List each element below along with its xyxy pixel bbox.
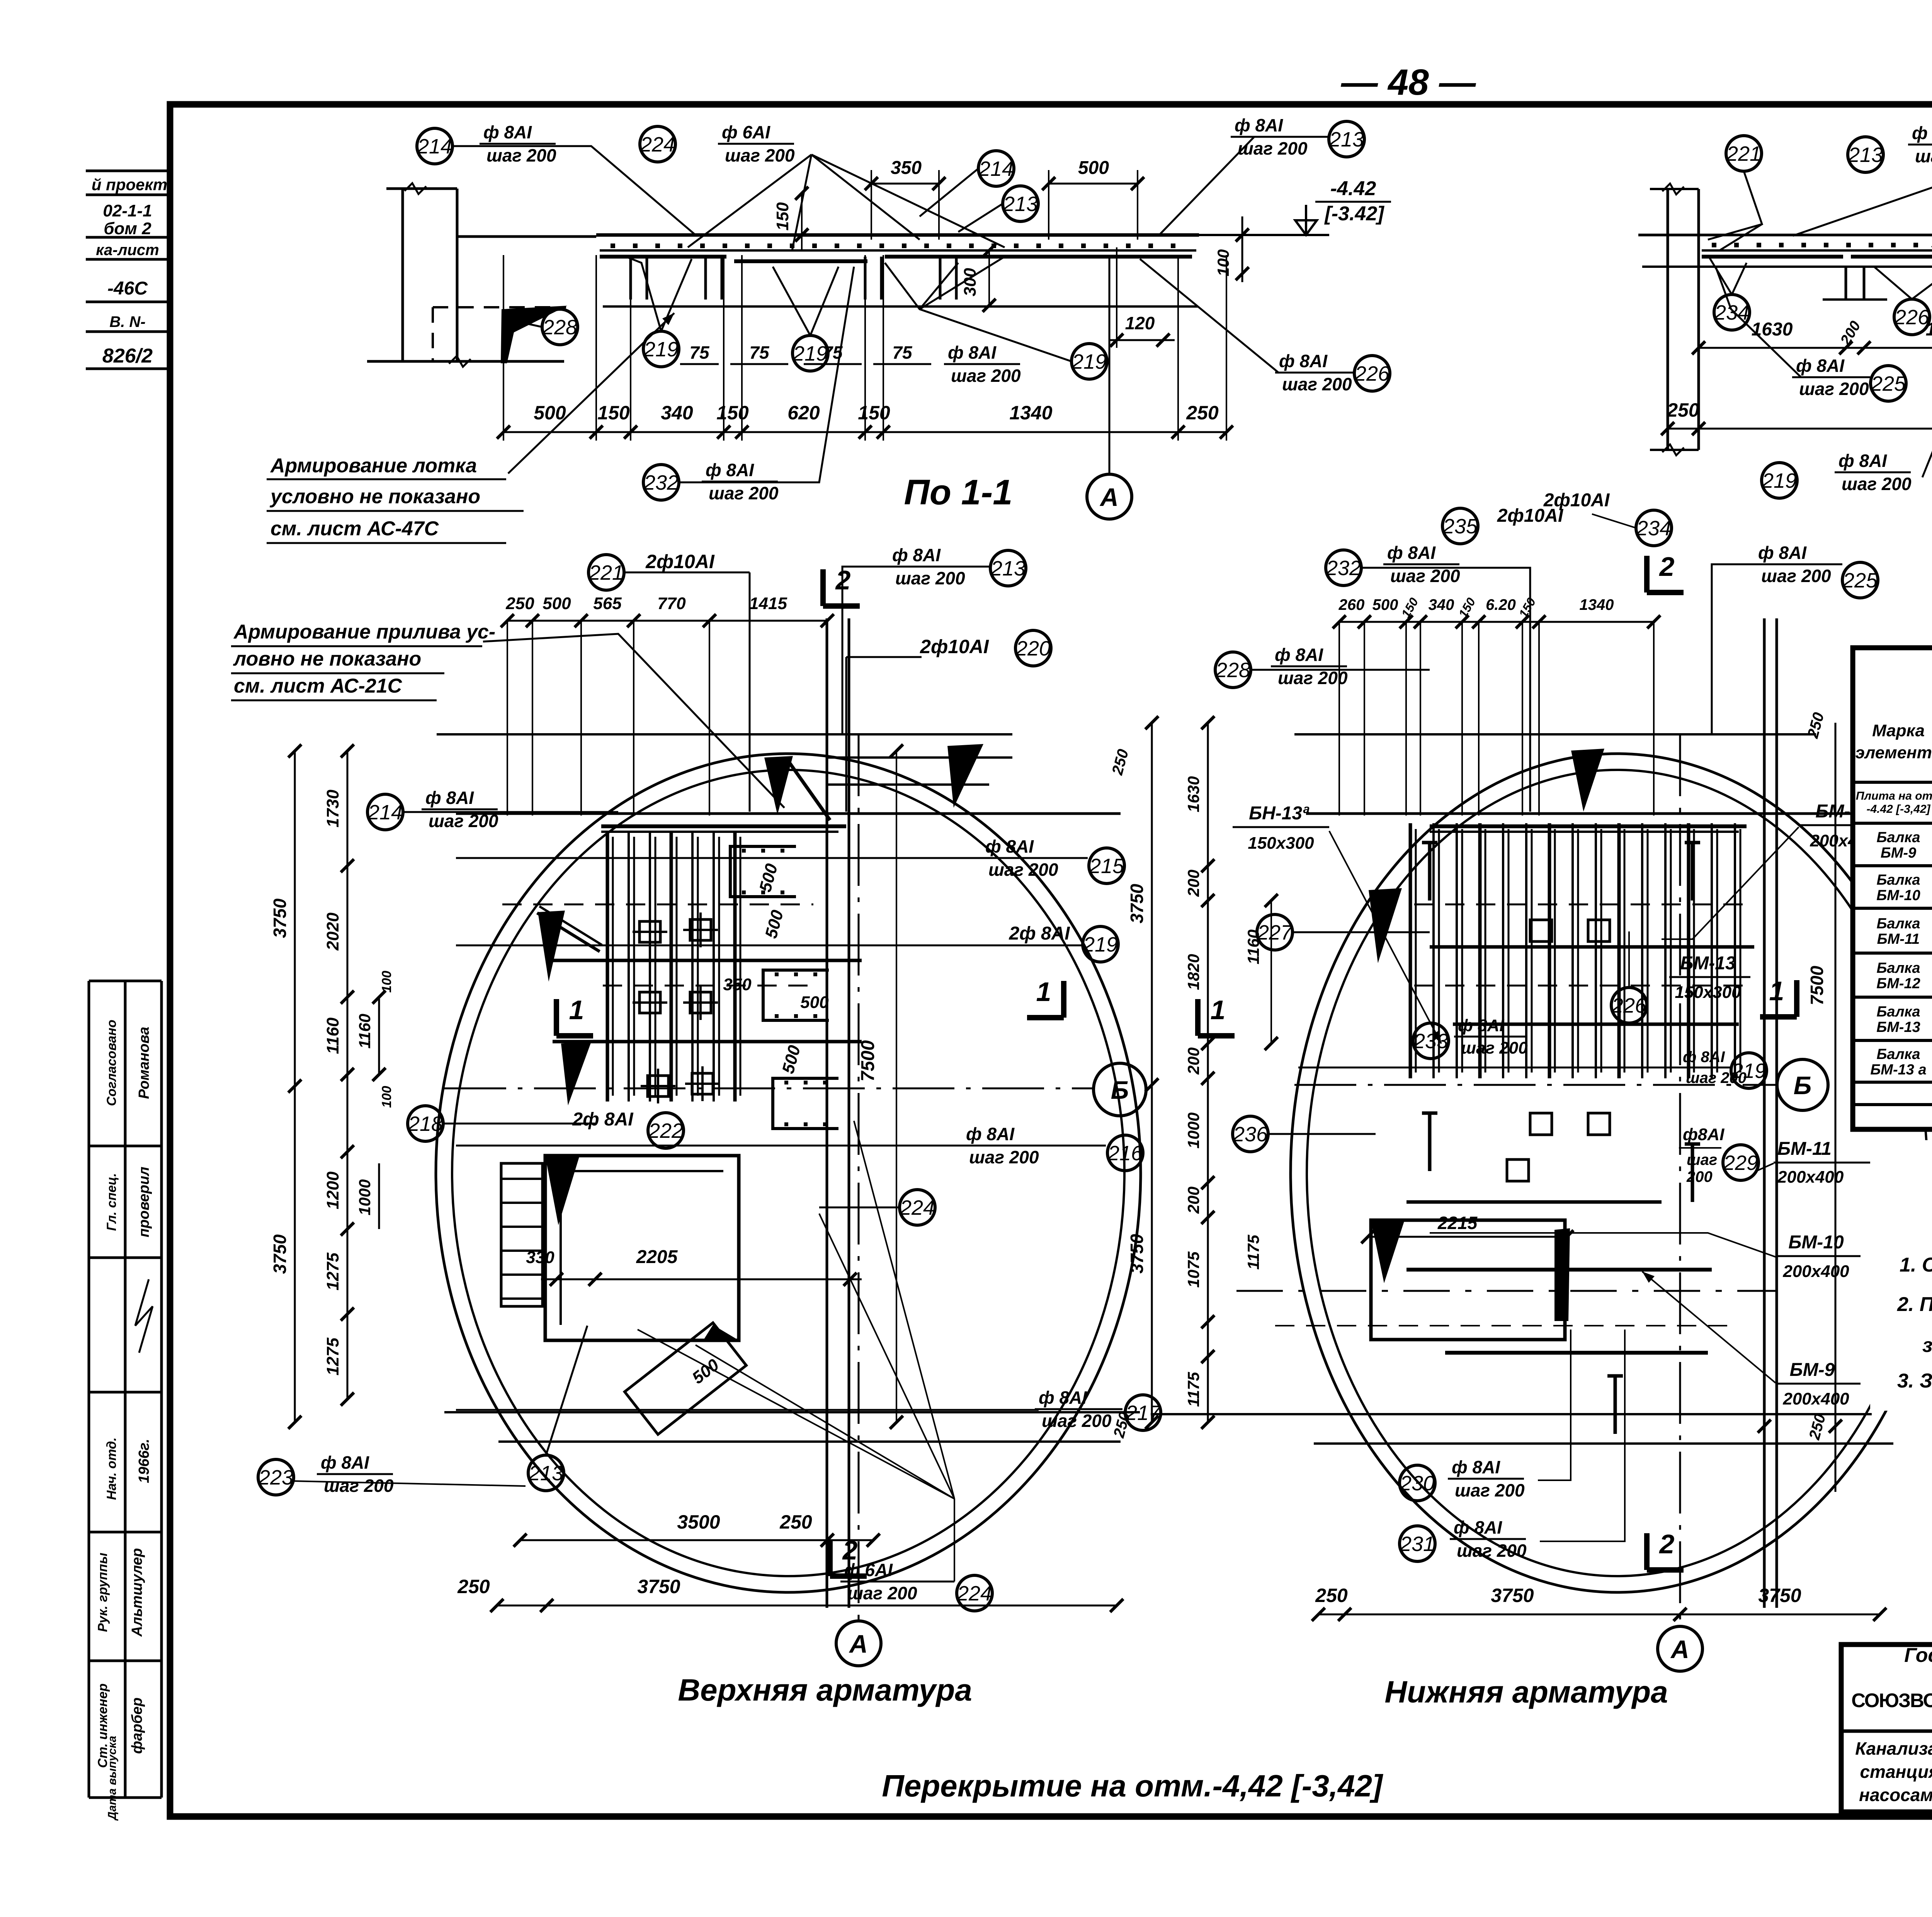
svg-text:1820: 1820 bbox=[1184, 954, 1202, 990]
beam stubs Po 2-2 bbox=[1845, 267, 1847, 300]
svg-text:ф 8АI: ф 8АI bbox=[948, 342, 997, 363]
svg-text:Дата выпуска: Дата выпуска bbox=[106, 1736, 119, 1821]
svg-text:шаг 200: шаг 200 bbox=[725, 145, 795, 165]
section Po 1-1 left wall bbox=[401, 189, 404, 361]
callout circle 219 bbox=[1083, 926, 1118, 962]
svg-text:— 48 —: — 48 — bbox=[1341, 62, 1476, 103]
dimension chain bbox=[507, 620, 827, 622]
svg-text:3750: 3750 bbox=[270, 898, 290, 938]
svg-text:-4.42 [-3,42]: -4.42 [-3,42] bbox=[1866, 803, 1930, 815]
haunch fill bbox=[501, 306, 567, 363]
section mark 1 bbox=[1195, 999, 1201, 1036]
svg-text:Балка: Балка bbox=[1877, 1046, 1920, 1062]
svg-text:1075: 1075 bbox=[1184, 1251, 1202, 1288]
stirrups right plan bbox=[1530, 920, 1552, 941]
svg-text:Армирование лотка: Армирование лотка bbox=[270, 455, 477, 477]
svg-text:А: А bbox=[1670, 1635, 1689, 1663]
svg-text:шаг 200: шаг 200 bbox=[1799, 379, 1869, 399]
svg-text:223: 223 bbox=[258, 1466, 293, 1489]
svg-text:ф 6АI: ф 6АI bbox=[722, 122, 770, 142]
svg-text:1175: 1175 bbox=[1184, 1372, 1202, 1407]
svg-text:1730: 1730 bbox=[323, 790, 342, 827]
callout circle 236 bbox=[1233, 1116, 1268, 1152]
svg-text:ф8АI: ф8АI bbox=[1683, 1125, 1725, 1144]
svg-text:ф 8АI: ф 8АI bbox=[1279, 351, 1328, 371]
svg-text:214: 214 bbox=[417, 135, 452, 158]
svg-text:шаг 200: шаг 200 bbox=[709, 483, 779, 503]
svg-text:БМ-13 а: БМ-13 а bbox=[1870, 1062, 1926, 1078]
svg-text:1000: 1000 bbox=[355, 1179, 374, 1215]
sub-slab level line bbox=[1642, 266, 1932, 268]
svg-text:219: 219 bbox=[643, 338, 679, 361]
svg-text:Согласовано: Согласовано bbox=[104, 1020, 119, 1106]
dashed axis rows lower bbox=[1236, 1290, 1777, 1292]
svg-text:231: 231 bbox=[1400, 1532, 1435, 1556]
section mark 1 bbox=[554, 999, 559, 1036]
svg-text:БМ-11: БМ-11 bbox=[1777, 1139, 1832, 1159]
svg-text:565: 565 bbox=[593, 594, 622, 613]
svg-text:219: 219 bbox=[793, 342, 828, 365]
svg-text:1630: 1630 bbox=[1184, 776, 1202, 812]
svg-text:Романова: Романова bbox=[136, 1027, 152, 1099]
svg-text:232: 232 bbox=[1326, 557, 1361, 580]
svg-text:225: 225 bbox=[1871, 372, 1906, 395]
svg-text:228: 228 bbox=[542, 316, 577, 339]
svg-text:шаг 200: шаг 200 bbox=[1278, 668, 1348, 688]
svg-text:ф 8АI: ф 8АI bbox=[1039, 1388, 1087, 1408]
svg-text:БМ-10: БМ-10 bbox=[1788, 1232, 1844, 1253]
svg-text:1175: 1175 bbox=[1244, 1234, 1262, 1270]
svg-text:Балка: Балка bbox=[1877, 872, 1920, 888]
svg-text:200х400: 200х400 bbox=[1782, 1262, 1849, 1281]
callout circle 214 bbox=[367, 794, 403, 830]
axis lines right plan bbox=[1294, 1084, 1776, 1086]
svg-text:шаг 200: шаг 200 bbox=[1457, 1541, 1527, 1561]
svg-text:350: 350 bbox=[891, 158, 922, 178]
callout circle 226 bbox=[1354, 356, 1390, 391]
section mark 2 bbox=[1644, 1533, 1650, 1570]
svg-text:2ф10АI: 2ф10АI bbox=[1543, 490, 1610, 511]
svg-text:БМ-11: БМ-11 bbox=[1877, 931, 1920, 947]
svg-text:250: 250 bbox=[457, 1576, 490, 1597]
svg-text:200: 200 bbox=[1184, 870, 1202, 897]
rotated plate bbox=[625, 1323, 747, 1434]
materials table grid bbox=[1853, 648, 1932, 1129]
callout circle 219 bbox=[643, 331, 679, 367]
svg-text:213: 213 bbox=[1003, 192, 1038, 216]
slab bottom bars Po 2-2 bbox=[1702, 255, 1843, 259]
callout circle 223 bbox=[258, 1459, 294, 1495]
axis mark А bbox=[1087, 474, 1132, 519]
svg-text:1200: 1200 bbox=[323, 1171, 342, 1209]
callout circle 228 bbox=[1215, 652, 1251, 688]
svg-text:2ф 8АI: 2ф 8АI bbox=[1009, 923, 1070, 944]
upper-left stamp table bbox=[86, 170, 170, 172]
svg-text:120: 120 bbox=[1125, 313, 1155, 333]
svg-text:620: 620 bbox=[787, 402, 820, 424]
svg-text:100: 100 bbox=[379, 1086, 394, 1108]
svg-text:3750: 3750 bbox=[1758, 1585, 1801, 1606]
svg-text:215: 215 bbox=[1089, 855, 1124, 878]
svg-text:БН-13ª: БН-13ª bbox=[1249, 803, 1310, 824]
rebar verticals upper room right plan bbox=[1409, 823, 1412, 1078]
bottom dims left plan bbox=[520, 1539, 873, 1541]
svg-text:1: 1 bbox=[1211, 995, 1226, 1025]
svg-text:340: 340 bbox=[661, 402, 693, 424]
rebar verticals upper room left plan bbox=[606, 831, 609, 1102]
svg-text:150: 150 bbox=[773, 202, 792, 231]
slab Po 2-2 bbox=[1638, 234, 1932, 237]
svg-text:1160: 1160 bbox=[323, 1017, 342, 1054]
svg-text:ф 8АI: ф 8АI bbox=[1838, 451, 1887, 471]
svg-text:ф 8АI: ф 8АI bbox=[1796, 356, 1845, 376]
axis mark А bbox=[836, 1621, 881, 1666]
callout circle 221 bbox=[588, 555, 624, 590]
svg-text:500: 500 bbox=[1372, 596, 1398, 613]
vertical dimension chain bbox=[1207, 723, 1209, 1422]
svg-text:232: 232 bbox=[643, 471, 679, 494]
svg-text:1340: 1340 bbox=[1580, 596, 1614, 613]
svg-text:ф 8АI: ф 8АI bbox=[1758, 543, 1807, 563]
left plan bottom chords bbox=[444, 1411, 1140, 1413]
svg-text:228: 228 bbox=[1215, 659, 1250, 682]
ladder lower left bbox=[501, 1163, 543, 1306]
svg-text:150х300: 150х300 bbox=[1248, 834, 1314, 853]
axis mark А bbox=[1658, 1626, 1702, 1671]
callout circle 234 bbox=[1714, 295, 1750, 330]
callout circle 224 bbox=[900, 1190, 935, 1225]
svg-text:220: 220 bbox=[1015, 637, 1051, 660]
svg-text:шаг 200: шаг 200 bbox=[486, 145, 556, 165]
svg-text:200х400: 200х400 bbox=[1777, 1168, 1844, 1187]
svg-text:шаг 200: шаг 200 bbox=[1915, 146, 1932, 166]
svg-text:ф 8АI: ф 8АI bbox=[892, 545, 941, 565]
callout circle 224 bbox=[640, 126, 675, 162]
svg-text:3750: 3750 bbox=[270, 1234, 290, 1274]
svg-text:2ф10АI: 2ф10АI bbox=[645, 551, 715, 572]
right plan right wall bbox=[1763, 618, 1766, 1608]
svg-text:826/2: 826/2 bbox=[102, 345, 153, 367]
svg-text:200: 200 bbox=[1184, 1047, 1202, 1075]
callout circle 219 bbox=[1731, 1053, 1767, 1088]
svg-text:213: 213 bbox=[990, 557, 1026, 580]
svg-text:235: 235 bbox=[1442, 515, 1478, 538]
svg-text:Армирование прилива ус-: Армирование прилива ус- bbox=[233, 621, 495, 643]
callout circle 230 bbox=[1400, 1465, 1435, 1501]
svg-text:75: 75 bbox=[689, 342, 710, 363]
callout circle 226 bbox=[1894, 299, 1930, 335]
callout circle 233 bbox=[1413, 1023, 1449, 1059]
right plan tank outline bbox=[1291, 754, 1932, 1592]
section mark 2 bbox=[827, 1539, 833, 1576]
svg-text:100: 100 bbox=[379, 971, 394, 993]
svg-text:А: А bbox=[849, 1629, 868, 1658]
Po 2-2 left wall bbox=[1667, 189, 1669, 450]
svg-text:ф 8АI: ф 8АI bbox=[483, 122, 532, 142]
svg-text:227: 227 bbox=[1257, 921, 1293, 944]
callout circle 214 bbox=[417, 128, 452, 164]
callout circle 225 bbox=[1871, 366, 1906, 401]
svg-text:770: 770 bbox=[657, 594, 686, 613]
svg-text:шаг 200: шаг 200 bbox=[895, 568, 965, 588]
left plan tank outline bbox=[436, 754, 1141, 1592]
svg-text:500: 500 bbox=[543, 594, 571, 613]
svg-text:250: 250 bbox=[1667, 399, 1699, 421]
inclined bar with wedge bbox=[786, 758, 830, 820]
svg-text:см. лист АС-21С: см. лист АС-21С bbox=[234, 675, 403, 697]
right plan bottom chords bbox=[1151, 1413, 1872, 1415]
svg-text:2: 2 bbox=[1659, 1529, 1675, 1559]
svg-text:[-3.42]: [-3.42] bbox=[1324, 203, 1384, 225]
svg-text:ф 8АI: ф 8АI bbox=[966, 1124, 1015, 1144]
svg-text:200: 200 bbox=[1184, 1187, 1202, 1214]
callout circle 217 bbox=[1125, 1395, 1161, 1430]
callout circle 219 bbox=[1762, 463, 1797, 498]
svg-text:ф 8АI: ф 8АI bbox=[1452, 1457, 1500, 1477]
svg-text:бом 2: бом 2 bbox=[104, 219, 151, 238]
svg-text:Альтшулер: Альтшулер bbox=[129, 1548, 145, 1637]
svg-text:2215: 2215 bbox=[1437, 1213, 1478, 1233]
svg-text:В. N-: В. N- bbox=[109, 313, 145, 330]
svg-text:шаг 200: шаг 200 bbox=[429, 811, 498, 831]
svg-text:222: 222 bbox=[648, 1119, 683, 1142]
callout circle 219 bbox=[1071, 344, 1107, 379]
svg-text:3750: 3750 bbox=[1127, 884, 1147, 923]
svg-text:БМ-9: БМ-9 bbox=[1790, 1360, 1835, 1380]
rebar horizontals bbox=[601, 824, 846, 828]
svg-text:226: 226 bbox=[1354, 362, 1390, 385]
svg-text:ф 8АI: ф 8АI bbox=[1387, 543, 1436, 563]
svg-text:элемента: элемента bbox=[1855, 743, 1932, 762]
svg-text:1340: 1340 bbox=[1009, 402, 1052, 424]
svg-text:шаг 200: шаг 200 bbox=[1042, 1411, 1112, 1431]
svg-text:224: 224 bbox=[640, 133, 675, 156]
vertical dimension chain bbox=[1151, 723, 1153, 1422]
svg-text:Госстрой ссср: Госстрой ссср bbox=[1904, 1644, 1932, 1667]
callout circle 213 bbox=[1003, 186, 1038, 221]
callout circle 232 bbox=[643, 465, 679, 500]
axis mark Б bbox=[1094, 1063, 1146, 1116]
callout circle 227 bbox=[1257, 914, 1293, 950]
svg-text:214: 214 bbox=[978, 157, 1014, 180]
title block frame bbox=[1841, 1645, 1932, 1812]
svg-text:й проект: й проект bbox=[92, 175, 167, 194]
svg-text:6.20: 6.20 bbox=[1486, 596, 1516, 613]
vertical dimension chain bbox=[294, 751, 296, 1422]
dimension chain bbox=[1339, 621, 1654, 623]
lower pit rectangle bbox=[545, 1156, 739, 1340]
svg-text:Балка: Балка bbox=[1877, 1004, 1920, 1020]
callout circle 213 bbox=[990, 550, 1026, 586]
svg-text:Верхняя арматура: Верхняя арматура bbox=[678, 1673, 972, 1707]
svg-text:шаг 200: шаг 200 bbox=[1282, 374, 1352, 394]
callout circle 213 bbox=[528, 1455, 564, 1491]
svg-text:ф 8АI: ф 8АI bbox=[1454, 1517, 1502, 1537]
callout circle 235 bbox=[1442, 508, 1478, 544]
svg-text:шаг 200: шаг 200 bbox=[951, 366, 1021, 386]
svg-text:шаг 200: шаг 200 bbox=[1842, 474, 1912, 494]
svg-text:фарбер: фарбер bbox=[129, 1697, 145, 1754]
beam stubs bbox=[629, 257, 632, 300]
pit rect right plan bbox=[1371, 1220, 1565, 1340]
svg-text:ловно не показано: ловно не показано bbox=[233, 648, 421, 670]
svg-text:см. лист АС-47С: см. лист АС-47С bbox=[270, 518, 439, 540]
svg-text:ф 8АI: ф 8АI bbox=[1912, 123, 1932, 143]
slab Po 1-1 bbox=[596, 233, 1199, 237]
level line and mark -4.42 bbox=[1199, 234, 1329, 236]
right end vertical dim 100 bbox=[1242, 216, 1243, 282]
callout circle 213 bbox=[1329, 121, 1364, 157]
u-bars right of plan bbox=[730, 846, 796, 897]
svg-text:БМ-13: БМ-13 bbox=[1876, 1019, 1920, 1035]
callout circle 232 bbox=[1326, 550, 1361, 586]
svg-text:219: 219 bbox=[1071, 350, 1107, 373]
svg-text:225: 225 bbox=[1842, 569, 1878, 592]
dashed recess bbox=[433, 306, 566, 308]
callout circle 215 bbox=[1089, 848, 1124, 884]
inclined double bar bbox=[537, 913, 600, 952]
callout circle 214 bbox=[978, 151, 1014, 186]
svg-text:2020: 2020 bbox=[323, 913, 342, 951]
dimension chain bbox=[1699, 347, 1932, 349]
svg-text:150: 150 bbox=[716, 402, 749, 424]
svg-text:340: 340 bbox=[1429, 596, 1454, 613]
svg-text:2ф10АI: 2ф10АI bbox=[920, 636, 989, 657]
fan leaders to 224 bottom bbox=[638, 1330, 954, 1499]
svg-text:250: 250 bbox=[505, 594, 534, 613]
left plan top wall lines bbox=[437, 733, 1012, 735]
svg-text:Нижняя арматура: Нижняя арматура bbox=[1384, 1675, 1668, 1709]
svg-text:проверил: проверил bbox=[136, 1167, 152, 1238]
dimension chain bbox=[1318, 1614, 1880, 1616]
svg-text:Балка: Балка bbox=[1877, 916, 1920, 932]
svg-text:Б: Б bbox=[1111, 1076, 1129, 1104]
svg-text:А: А bbox=[1099, 483, 1119, 511]
dimension chain bbox=[503, 431, 1226, 433]
svg-text:-46C: -46C bbox=[107, 278, 148, 299]
svg-text:350: 350 bbox=[723, 975, 752, 994]
svg-text:2: 2 bbox=[842, 1535, 858, 1565]
svg-text:3750: 3750 bbox=[637, 1576, 680, 1597]
svg-text:По 1-1: По 1-1 bbox=[904, 473, 1013, 512]
rebar horizontals right plan bbox=[1430, 824, 1747, 828]
svg-text:150: 150 bbox=[597, 402, 630, 424]
svg-text:Нач. отд.: Нач. отд. bbox=[104, 1437, 119, 1500]
svg-text:233: 233 bbox=[1413, 1030, 1448, 1053]
callout circle 234 bbox=[1636, 510, 1672, 546]
svg-text:218: 218 bbox=[408, 1112, 443, 1136]
svg-text:1275: 1275 bbox=[323, 1338, 342, 1376]
svg-text:шаг 200: шаг 200 bbox=[969, 1147, 1039, 1167]
callout circle 229 bbox=[1723, 1145, 1759, 1180]
svg-text:100: 100 bbox=[1214, 249, 1232, 276]
svg-text:ф 8АI: ф 8АI bbox=[1275, 645, 1323, 665]
svg-text:1820: 1820 bbox=[1926, 319, 1932, 340]
svg-text:заложить закладные по л: заложить закладные по листу АС-17. bbox=[1922, 1334, 1932, 1357]
svg-text:1: 1 bbox=[1769, 976, 1784, 1006]
svg-text:229: 229 bbox=[1723, 1151, 1758, 1175]
svg-text:250: 250 bbox=[1315, 1585, 1348, 1606]
svg-text:БМ-12: БМ-12 bbox=[1876, 976, 1920, 992]
callout circle 231 bbox=[1400, 1526, 1435, 1561]
callout circle 226 bbox=[1611, 987, 1647, 1023]
section mark 2 bbox=[820, 569, 826, 606]
callout circle 224 bbox=[957, 1575, 992, 1611]
right plan top wall lines bbox=[1294, 733, 1816, 735]
small stirrup rects center bbox=[639, 921, 660, 942]
notes white underlay bbox=[1870, 1140, 1932, 1411]
svg-text:7500: 7500 bbox=[858, 1040, 878, 1081]
svg-text:150: 150 bbox=[858, 402, 890, 424]
svg-text:221: 221 bbox=[1726, 142, 1761, 165]
svg-text:213: 213 bbox=[1329, 128, 1364, 151]
extension line 4750 bbox=[1835, 723, 1837, 1492]
svg-text:шаг 200: шаг 200 bbox=[1455, 1480, 1525, 1500]
svg-text:1160: 1160 bbox=[355, 1014, 374, 1049]
svg-text:БМ-10: БМ-10 bbox=[1876, 887, 1920, 904]
svg-text:Балка: Балка bbox=[1877, 960, 1920, 976]
section mark 1 bbox=[1061, 981, 1066, 1018]
section mark 1 bbox=[1794, 980, 1799, 1017]
axis mark Б bbox=[1777, 1059, 1828, 1110]
svg-text:7500: 7500 bbox=[1807, 965, 1827, 1005]
black wedges right plan bbox=[1571, 749, 1604, 812]
svg-text:Гл. спец.: Гл. спец. bbox=[104, 1173, 119, 1231]
svg-text:2ф 8АI: 2ф 8АI bbox=[572, 1109, 634, 1130]
section mark 2 bbox=[1644, 556, 1650, 592]
svg-text:шаг 200: шаг 200 bbox=[1461, 1039, 1528, 1057]
svg-text:236: 236 bbox=[1233, 1123, 1268, 1146]
svg-text:216: 216 bbox=[1107, 1142, 1143, 1165]
svg-text:3750: 3750 bbox=[1491, 1585, 1534, 1606]
svg-text:1275: 1275 bbox=[323, 1253, 342, 1290]
svg-text:224: 224 bbox=[900, 1196, 935, 1219]
svg-text:ф 8АI: ф 8АI bbox=[321, 1452, 369, 1473]
dim 350 bbox=[871, 183, 939, 185]
vertical dimension chain bbox=[347, 751, 349, 1399]
svg-text:2. При бетонировании перек: 2. При бетонировании перекрытия на отм.-… bbox=[1897, 1293, 1932, 1316]
svg-text:230: 230 bbox=[1400, 1472, 1435, 1495]
svg-text:ка-лист: ка-лист bbox=[96, 242, 159, 259]
callout circle 219 bbox=[793, 335, 828, 371]
svg-text:75: 75 bbox=[892, 342, 913, 363]
svg-text:226: 226 bbox=[1894, 306, 1930, 329]
svg-text:ф 8АI: ф 8АI bbox=[425, 788, 474, 808]
svg-text:2205: 2205 bbox=[636, 1247, 678, 1267]
svg-text:1: 1 bbox=[1036, 977, 1051, 1007]
svg-text:3. Защитный слой бетона: 3. Защитный слой бетона принят 20 мм bbox=[1897, 1370, 1932, 1392]
svg-text:500: 500 bbox=[1078, 158, 1109, 178]
svg-text:БМ-9: БМ-9 bbox=[1881, 845, 1916, 861]
svg-text:шаг 200: шаг 200 bbox=[1761, 566, 1831, 586]
svg-text:221: 221 bbox=[588, 561, 624, 584]
svg-text:1. Опалубочные чертежи: 1. Опалубочные чертежи см. лист АС-11; А… bbox=[1900, 1254, 1932, 1276]
svg-text:3500: 3500 bbox=[677, 1511, 720, 1533]
callout circle 225 bbox=[1842, 562, 1878, 598]
svg-text:Б: Б bbox=[1794, 1071, 1812, 1100]
slab bottom bars bbox=[600, 255, 726, 259]
svg-text:500: 500 bbox=[534, 402, 566, 424]
svg-text:шаг 200: шаг 200 bbox=[324, 1476, 394, 1496]
svg-text:шаг 200: шаг 200 bbox=[1390, 566, 1460, 586]
callout circle 216 bbox=[1107, 1135, 1143, 1171]
svg-text:1: 1 bbox=[569, 995, 584, 1025]
svg-text:213: 213 bbox=[1848, 143, 1883, 167]
svg-text:1415: 1415 bbox=[749, 594, 787, 613]
svg-text:1966г.: 1966г. bbox=[136, 1439, 152, 1483]
svg-text:СОЮЗВОДОКАНАЛПРОЕКТ: СОЮЗВОДОКАНАЛПРОЕКТ bbox=[1851, 1689, 1932, 1711]
left plan right wall bbox=[826, 618, 828, 1608]
